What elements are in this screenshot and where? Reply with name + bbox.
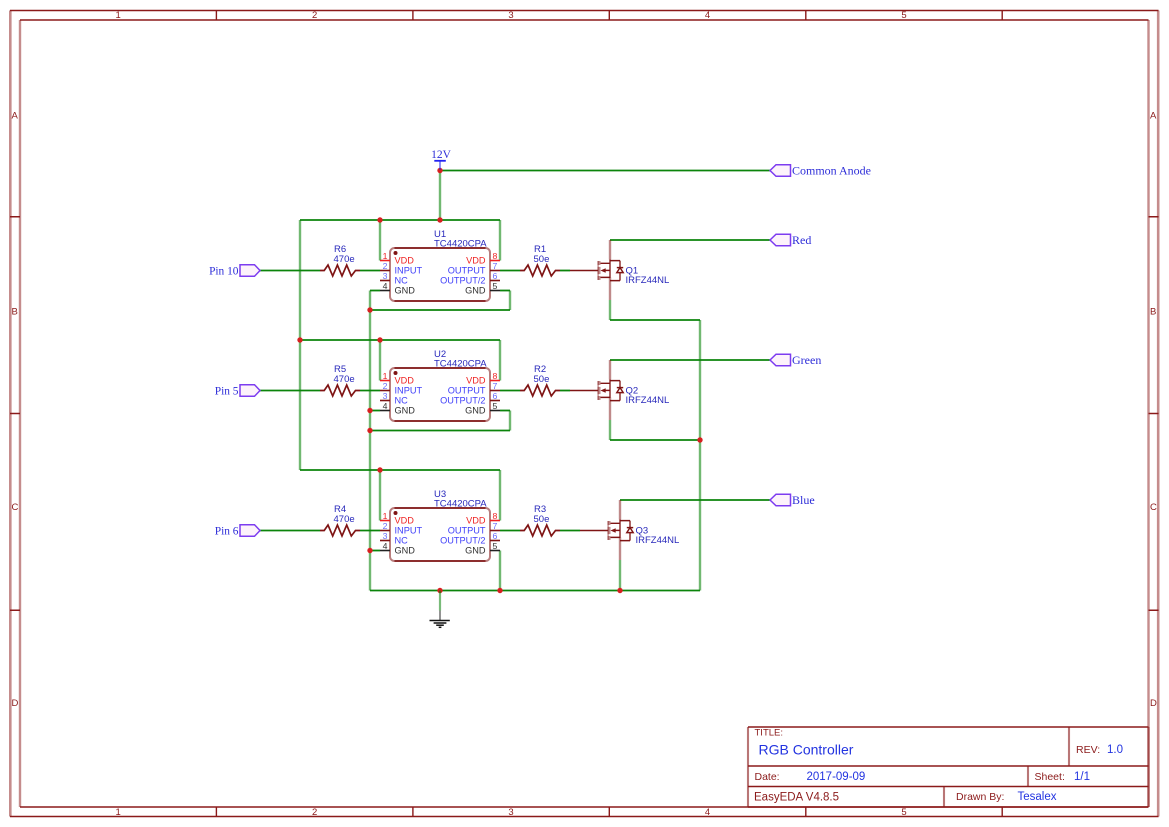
svg-text:Common Anode: Common Anode xyxy=(792,163,871,177)
junction dot (370,310) xyxy=(367,307,372,312)
svg-text:6: 6 xyxy=(493,391,498,401)
wire Q1 drain to Red flag xyxy=(610,239,770,241)
junction dot (620,590.5) xyxy=(617,588,622,593)
svg-text:OUTPUT: OUTPUT xyxy=(448,526,486,536)
svg-text:TC4420CPA: TC4420CPA xyxy=(434,359,487,370)
junction dot (300,340) xyxy=(297,337,302,342)
wire U1 pin7 to R1 xyxy=(500,270,520,272)
wire U1 gnd loop xyxy=(370,309,510,311)
svg-text:4: 4 xyxy=(383,401,388,411)
svg-text:5: 5 xyxy=(901,10,906,21)
net port flag Pin 6 (input) xyxy=(215,525,260,538)
svg-text:2: 2 xyxy=(312,807,317,818)
svg-text:OUTPUT: OUTPUT xyxy=(448,386,486,396)
resistor R4 470e xyxy=(320,504,360,536)
svg-text:Red: Red xyxy=(792,233,811,247)
svg-text:Pin 5: Pin 5 xyxy=(215,385,239,397)
junction dot (370,410.5) xyxy=(367,408,372,413)
junction dot (500,590.5) xyxy=(497,588,502,593)
wire U3 pin4 to gnd rail xyxy=(370,550,380,552)
wire to U2 pin1 xyxy=(379,340,381,381)
svg-text:TC4420CPA: TC4420CPA xyxy=(434,499,487,510)
svg-text:GND: GND xyxy=(465,406,486,416)
svg-text:3: 3 xyxy=(383,271,388,281)
border row letters xyxy=(12,110,1158,709)
svg-text:4: 4 xyxy=(383,541,388,551)
resistor R6 470e xyxy=(320,244,360,276)
wire Q3 source down xyxy=(619,560,621,591)
wire U1 pin5 xyxy=(500,290,510,292)
svg-text:B: B xyxy=(1150,306,1156,317)
svg-text:5: 5 xyxy=(901,807,906,818)
svg-text:5: 5 xyxy=(493,281,498,291)
svg-text:50e: 50e xyxy=(534,374,550,385)
wire 12V to Common Anode xyxy=(440,170,770,172)
svg-text:B: B xyxy=(12,306,18,317)
wire Q1 source to right rail xyxy=(610,319,700,321)
svg-text:A: A xyxy=(1150,110,1157,121)
wire to U3 pin8 xyxy=(499,470,501,521)
wire U3 VDD rail xyxy=(300,469,500,471)
svg-text:GND: GND xyxy=(395,406,416,416)
svg-text:VDD: VDD xyxy=(395,376,415,386)
svg-text:1: 1 xyxy=(383,371,388,381)
wire R5 to U2 pin2 xyxy=(360,390,380,392)
svg-text:2: 2 xyxy=(312,10,317,21)
junction dot (440,220) xyxy=(437,217,442,222)
svg-text:8: 8 xyxy=(493,511,498,521)
svg-text:A: A xyxy=(12,110,19,121)
wire U2 pin5 down xyxy=(509,411,511,431)
wire gnd rail x=370 xyxy=(369,291,371,591)
svg-text:D: D xyxy=(12,698,19,709)
wire U1 pin4 to gnd rail xyxy=(370,290,380,292)
svg-text:NC: NC xyxy=(395,536,409,546)
junction dot (440,170.5) xyxy=(437,168,442,173)
svg-text:470e: 470e xyxy=(334,254,355,265)
resistor R3 50e xyxy=(520,504,560,536)
transistor Q1 IRFZ44NL (N-MOSFET) xyxy=(570,240,669,300)
wire R3 to Q3 gate xyxy=(560,530,580,532)
svg-text:INPUT: INPUT xyxy=(395,386,423,396)
border column ticks top/bottom xyxy=(216,11,1002,817)
svg-text:8: 8 xyxy=(493,371,498,381)
junction dot (380,470) xyxy=(377,467,382,472)
wire U3 pin7 to R3 xyxy=(500,530,520,532)
svg-text:Sheet:: Sheet: xyxy=(1035,771,1065,783)
svg-text:1.0: 1.0 xyxy=(1107,744,1123,756)
wire 12V down to U1 rail xyxy=(439,171,441,221)
svg-text:VDD: VDD xyxy=(466,256,486,266)
transistor Q3 IRFZ44NL (N-MOSFET) xyxy=(580,500,679,560)
svg-text:6: 6 xyxy=(493,531,498,541)
svg-text:470e: 470e xyxy=(334,514,355,525)
svg-text:VDD: VDD xyxy=(395,516,415,526)
wire VDD rail x=300 down xyxy=(299,220,301,470)
junction dot (370,550.5) xyxy=(367,548,372,553)
svg-text:Pin 6: Pin 6 xyxy=(215,525,239,537)
net port flag Pin 10 (input) xyxy=(209,265,260,278)
svg-text:NC: NC xyxy=(395,396,409,406)
svg-text:GND: GND xyxy=(465,286,486,296)
svg-text:INPUT: INPUT xyxy=(395,266,423,276)
ground symbol xyxy=(430,591,450,628)
op-amp driver IC U1 TC4420CPA xyxy=(380,229,500,301)
transistor Q2 IRFZ44NL (N-MOSFET) xyxy=(570,360,669,420)
wire U3 pin5 down xyxy=(499,551,501,591)
wire Q2 source down xyxy=(609,420,611,440)
svg-text:5: 5 xyxy=(493,401,498,411)
svg-text:1: 1 xyxy=(383,251,388,261)
wire U1 pin5 down xyxy=(509,291,511,311)
wire U2 pin4 to gnd rail xyxy=(370,410,380,412)
wire R4 to U3 pin2 xyxy=(360,530,380,532)
svg-text:REV:: REV: xyxy=(1076,744,1100,756)
wire to U1 pin8 xyxy=(499,220,501,261)
svg-text:3: 3 xyxy=(508,10,513,21)
svg-text:2: 2 xyxy=(383,261,388,271)
wire Pin10 to R6 xyxy=(260,270,320,272)
svg-text:OUTPUT/2: OUTPUT/2 xyxy=(440,276,485,286)
svg-text:D: D xyxy=(1150,698,1157,709)
svg-text:VDD: VDD xyxy=(466,516,486,526)
resistor R2 50e xyxy=(520,364,560,396)
net port flag Blue (output) xyxy=(770,493,815,507)
junction dot (440,590.5) xyxy=(437,588,442,593)
junction dot (380,220) xyxy=(377,217,382,222)
svg-text:3: 3 xyxy=(508,807,513,818)
wire R6 to U1 pin2 xyxy=(360,270,380,272)
svg-text:GND: GND xyxy=(465,546,486,556)
svg-text:7: 7 xyxy=(493,261,498,271)
svg-text:OUTPUT/2: OUTPUT/2 xyxy=(440,396,485,406)
net port flag Green (output) xyxy=(770,353,821,367)
svg-text:TITLE:: TITLE: xyxy=(755,728,784,739)
svg-text:C: C xyxy=(1150,502,1157,513)
svg-text:3: 3 xyxy=(383,391,388,401)
title block frame xyxy=(748,727,1149,807)
svg-text:1/1: 1/1 xyxy=(1074,771,1090,783)
wire U1 VDD rail xyxy=(300,219,500,221)
junction dot (380,340) xyxy=(377,337,382,342)
wire to U3 pin1 xyxy=(379,470,381,521)
net port flag Common Anode (output) xyxy=(770,163,871,177)
net port flag Red (output) xyxy=(770,233,811,247)
wire to U2 pin8 xyxy=(499,340,501,381)
wire Q2 drain to Green flag xyxy=(610,359,770,361)
svg-text:IRFZ44NL: IRFZ44NL xyxy=(626,395,670,406)
wire U2 pin5 xyxy=(500,410,510,412)
wire Pin6 to R4 xyxy=(260,530,320,532)
wire ground rail bottom xyxy=(370,590,700,592)
svg-text:7: 7 xyxy=(493,521,498,531)
svg-text:VDD: VDD xyxy=(466,376,486,386)
svg-text:6: 6 xyxy=(493,271,498,281)
svg-text:8: 8 xyxy=(493,251,498,261)
svg-text:C: C xyxy=(12,502,19,513)
power flag 12V xyxy=(431,149,452,170)
svg-text:50e: 50e xyxy=(534,514,550,525)
svg-text:4: 4 xyxy=(705,807,710,818)
svg-text:Drawn By:: Drawn By: xyxy=(956,791,1004,803)
svg-text:470e: 470e xyxy=(334,374,355,385)
wire source rail x=700 xyxy=(699,320,701,591)
svg-text:IRFZ44NL: IRFZ44NL xyxy=(626,275,670,286)
wire Pin5 to R5 xyxy=(260,390,320,392)
svg-text:1: 1 xyxy=(116,10,121,21)
svg-text:Blue: Blue xyxy=(792,493,815,507)
svg-text:Tesalex: Tesalex xyxy=(1018,791,1057,803)
border column numbers xyxy=(116,10,907,818)
svg-text:TC4420CPA: TC4420CPA xyxy=(434,239,487,250)
wire Q1 source down xyxy=(609,300,611,320)
svg-text:7: 7 xyxy=(493,381,498,391)
svg-text:Pin 10: Pin 10 xyxy=(209,265,239,277)
wire U2 VDD rail xyxy=(300,339,500,341)
svg-text:1: 1 xyxy=(116,807,121,818)
svg-text:4: 4 xyxy=(705,10,710,21)
svg-text:INPUT: INPUT xyxy=(395,526,423,536)
wire Q3 drain to Blue flag xyxy=(620,499,770,501)
op-amp driver IC U3 TC4420CPA xyxy=(380,489,500,561)
wire to U1 pin1 xyxy=(379,220,381,261)
resistor R1 50e xyxy=(520,244,560,276)
svg-text:OUTPUT/2: OUTPUT/2 xyxy=(440,536,485,546)
svg-text:Green: Green xyxy=(792,353,821,367)
wire Q2 source to right rail xyxy=(610,439,700,441)
svg-text:EasyEDA V4.8.5: EasyEDA V4.8.5 xyxy=(754,792,839,804)
svg-text:Date:: Date: xyxy=(755,771,780,783)
wire R1 to Q1 gate xyxy=(560,270,570,272)
wire U2 gnd loop xyxy=(370,430,510,432)
wire U2 pin7 to R2 xyxy=(500,390,520,392)
svg-text:4: 4 xyxy=(383,281,388,291)
svg-text:OUTPUT: OUTPUT xyxy=(448,266,486,276)
net port flag Pin 5 (input) xyxy=(215,385,260,398)
svg-text:12V: 12V xyxy=(431,149,452,161)
svg-text:RGB Controller: RGB Controller xyxy=(759,742,854,758)
junction dot (370,430.5) xyxy=(367,428,372,433)
svg-text:2: 2 xyxy=(383,381,388,391)
wire R2 to Q2 gate xyxy=(560,390,570,392)
svg-text:VDD: VDD xyxy=(395,256,415,266)
svg-text:2017-09-09: 2017-09-09 xyxy=(807,771,866,783)
border row ticks left/right xyxy=(10,217,1159,611)
svg-text:5: 5 xyxy=(493,541,498,551)
resistor R5 470e xyxy=(320,364,360,396)
op-amp driver IC U2 TC4420CPA xyxy=(380,349,500,421)
svg-text:GND: GND xyxy=(395,286,416,296)
svg-text:50e: 50e xyxy=(534,254,550,265)
svg-text:3: 3 xyxy=(383,531,388,541)
svg-text:GND: GND xyxy=(395,546,416,556)
junction dot (700,440) xyxy=(697,437,702,442)
svg-text:IRFZ44NL: IRFZ44NL xyxy=(636,535,680,546)
svg-text:1: 1 xyxy=(383,511,388,521)
svg-text:NC: NC xyxy=(395,276,409,286)
svg-text:2: 2 xyxy=(383,521,388,531)
